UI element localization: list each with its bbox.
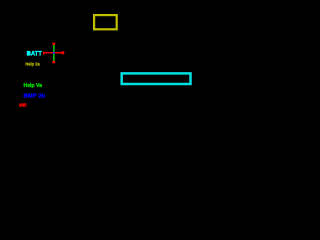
- crosshair cap bottom: [52, 61, 55, 63]
- crosshair cap left: [43, 52, 44, 55]
- component U1 (yellow symbol box): [94, 15, 117, 29]
- net label BATT first-glyph dense block: [27, 51, 31, 55]
- cursor crosshair: green vertical wire: [53, 44, 55, 61]
- svg-text:GND: GND: [19, 103, 27, 109]
- crosshair cap right: [62, 51, 65, 54]
- svg-text:BMP 2b: BMP 2b: [24, 93, 46, 99]
- crosshair cap top: [52, 43, 55, 45]
- component R1 (cyan symbol box): [122, 73, 191, 84]
- svg-text:Help Va: Help Va: [24, 83, 43, 89]
- crosshair center junction (blue): [53, 52, 55, 54]
- svg-text:Help 2a: Help 2a: [25, 61, 40, 67]
- cursor crosshair: red horizontal wire: [43, 52, 64, 53]
